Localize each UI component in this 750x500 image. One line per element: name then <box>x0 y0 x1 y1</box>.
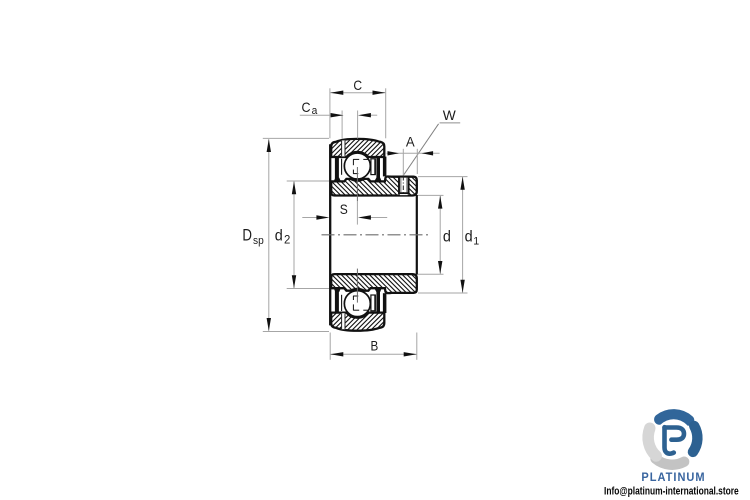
ball centre line lower <box>356 269 358 303</box>
dimension Dsp line <box>268 139 270 331</box>
seal upper-right <box>376 156 380 180</box>
horizontal centre line <box>322 234 429 236</box>
inner ring upper section hatch <box>308 172 439 200</box>
dimension d2 line <box>293 181 295 288</box>
svg-text:sp: sp <box>253 234 264 247</box>
svg-text:2: 2 <box>284 233 290 246</box>
outer ring upper section hatch <box>309 134 408 162</box>
set screw W upper <box>399 177 409 194</box>
svg-text:S: S <box>340 201 348 217</box>
dimension C extension lines <box>329 88 331 138</box>
inner ring lower outline <box>331 274 417 293</box>
svg-text:PLATINUM: PLATINUM <box>641 471 705 483</box>
dimension d2 extension lines <box>287 180 329 182</box>
dimension d1 line <box>462 177 464 293</box>
inner ring right face (bore silhouette) <box>416 195 418 275</box>
set screw axis dash-dot <box>402 176 404 195</box>
seal upper-left <box>335 156 339 180</box>
Platinum logo petals <box>648 415 697 465</box>
outer ring right face upper (merged with seal lip) <box>383 157 387 177</box>
dimension A extension lines <box>402 149 404 176</box>
svg-text:C: C <box>353 77 362 93</box>
inner race edge line lower-left <box>341 295 343 311</box>
svg-text:C: C <box>302 99 311 115</box>
S extension line (ball centre plane) <box>356 201 358 225</box>
svg-text:a: a <box>312 105 318 117</box>
outer ring upper outline <box>331 139 384 157</box>
svg-text:d: d <box>275 227 283 245</box>
ball upper center marks <box>353 159 368 173</box>
dimension Ca line with inward arrows <box>300 114 332 116</box>
ball lower center marks <box>353 296 368 310</box>
dimension d line <box>439 196 441 274</box>
left face line <box>329 144 331 325</box>
dimension d1 extension lines <box>418 176 468 178</box>
outer ring anti-rotation slot upper (white strip) <box>341 140 345 156</box>
inner race edge line upper-left <box>341 159 343 175</box>
ball centre line upper <box>356 167 358 201</box>
outer ring lower outline <box>331 313 384 331</box>
inner ring lower section hatch <box>308 270 439 298</box>
ball upper <box>344 153 370 179</box>
dimension Dsp extension lines <box>263 137 329 139</box>
outer ring lower section hatch <box>309 308 408 336</box>
dimension B extension lines below part <box>329 333 331 360</box>
ball lower <box>344 291 370 317</box>
outer ring right face lower (merged with seal lip) <box>383 293 387 313</box>
dimension B line <box>331 353 417 355</box>
dimension Ca extension lines <box>341 111 343 139</box>
svg-text:A: A <box>406 134 416 150</box>
svg-text:1: 1 <box>473 235 479 247</box>
svg-text:B: B <box>371 337 379 353</box>
outer ring anti-rotation slot lower (white strip) <box>341 313 345 329</box>
dimension d extension lines <box>418 194 444 196</box>
svg-text:d: d <box>443 228 451 246</box>
dimension C line <box>330 92 385 94</box>
raceway land box upper <box>371 159 375 175</box>
dimension S line with inward arrows <box>302 217 317 219</box>
svg-text:d: d <box>465 228 473 246</box>
svg-text:D: D <box>242 227 252 244</box>
raceway land box lower <box>371 295 375 311</box>
Platinum logo P <box>665 427 685 453</box>
svg-text:Info@platinum-international.st: Info@platinum-international.store <box>604 485 739 497</box>
dimension A line with arrows <box>387 152 440 154</box>
seal lower-left <box>335 289 339 313</box>
seal lower-right <box>376 289 380 313</box>
inner ring upper outline <box>331 176 417 195</box>
svg-text:W: W <box>443 107 457 123</box>
